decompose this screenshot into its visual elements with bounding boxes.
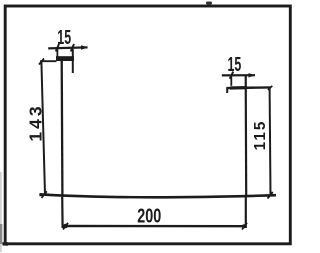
- left wall top cap: [56, 56, 74, 61]
- right wall top line: [227, 86, 271, 89]
- extension stub left of 15 dim: [56, 49, 58, 57]
- left wall line: [61, 59, 64, 195]
- tick 115 top: [268, 86, 272, 90]
- dimension line 143: [41, 62, 45, 195]
- tick 15 right dim: [230, 72, 233, 79]
- arrowhead 15 right dim: [249, 73, 256, 77]
- dimension label 115 (rotated): [252, 120, 269, 151]
- dimension line 200: [62, 225, 246, 228]
- extension line left of 200 dim (wall continued): [61, 195, 64, 228]
- channel bottom line: [40, 194, 277, 197]
- right wall line: [245, 76, 248, 196]
- tick 115 bottom: [268, 192, 273, 199]
- dimension line 115: [269, 88, 272, 196]
- svg-text:15: 15: [228, 53, 242, 76]
- dimension label 143 (rotated): [25, 103, 45, 141]
- dimension label 15 (right): [228, 53, 242, 76]
- right wall top hook: [226, 88, 228, 94]
- dimension label 200: [137, 204, 161, 227]
- tick 15 left dim, right end: [71, 44, 74, 52]
- svg-text:200: 200: [137, 204, 161, 227]
- scan speck top edge: [206, 2, 212, 5]
- svg-text:143: 143: [25, 103, 45, 141]
- bottom border left blob: [3, 242, 9, 246]
- extension stub below 15 right dim: [230, 76, 232, 86]
- tick 15 left dim, left end: [56, 44, 59, 52]
- extension line top of 143 dim: [40, 60, 57, 62]
- extension stub right of 15 dim: [72, 49, 74, 73]
- scan smudge left edge: [0, 172, 2, 252]
- extension line right of 200 dim: [245, 196, 247, 228]
- svg-text:115: 115: [252, 120, 269, 151]
- tick 200 left end: [63, 224, 68, 229]
- tick 143 bottom: [39, 193, 49, 196]
- tick 200 right end: [242, 224, 246, 228]
- dimension line 15 (right): [222, 74, 255, 76]
- dimension label 15 (left): [57, 26, 71, 49]
- arrowhead 15 left dim: [81, 45, 88, 49]
- tick 143 top: [39, 59, 44, 65]
- dimension line 15 (left): [48, 47, 87, 48]
